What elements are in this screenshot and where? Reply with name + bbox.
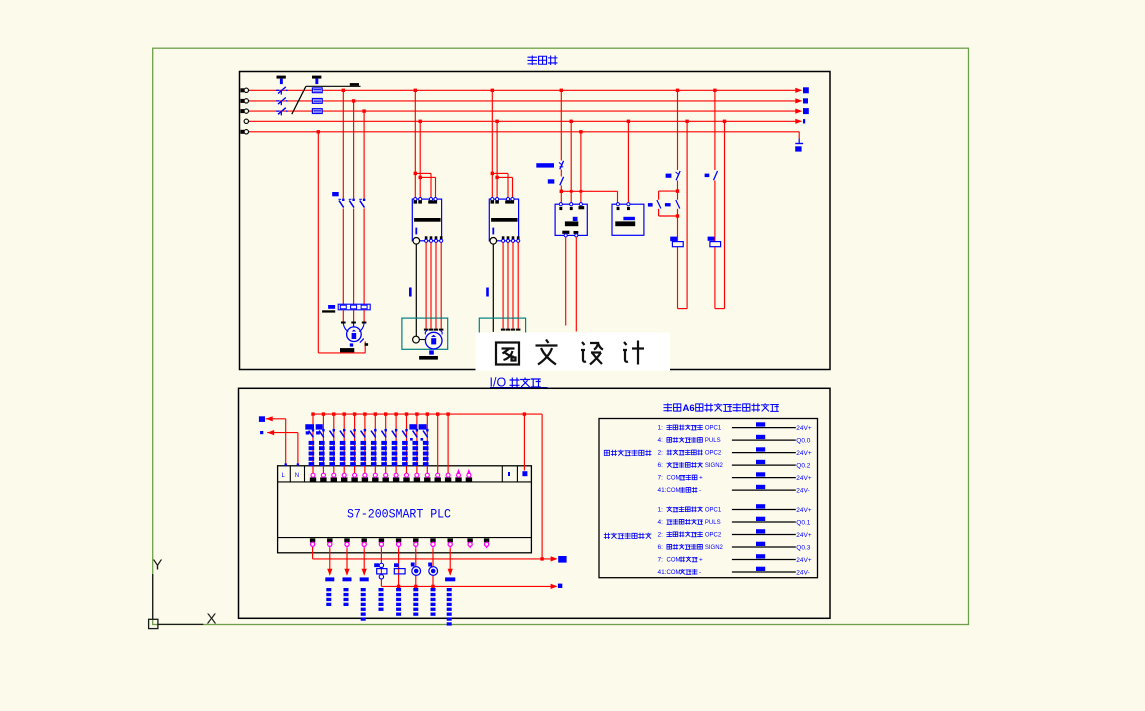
wire U2 jumper N: [497, 177, 512, 199]
wire DC+ drop: [523, 414, 525, 470]
drive U1 PE terminal: [413, 238, 420, 245]
bus N wire: [244, 119, 797, 123]
switch SB2: [705, 171, 718, 180]
breaker QS1 pole 1: [276, 87, 287, 95]
output Q0.0 column: [325, 548, 334, 606]
bus N right arrow: [795, 119, 805, 124]
svg-text:COM: COM: [667, 488, 681, 494]
wire to G2: [561, 191, 617, 204]
node PE tap: [317, 130, 320, 133]
thermal relay FR1 label: [322, 305, 335, 313]
group label 横轴电机驱动器: [604, 450, 651, 456]
svg-text:4:: 4:: [658, 519, 664, 526]
arrow line1 out: [551, 556, 567, 563]
bus PE drop to ground: [798, 132, 800, 139]
node L1 tap KA1: [676, 89, 679, 92]
svg-text:24V+: 24V+: [796, 450, 812, 457]
svg-text:24V+: 24V+: [796, 557, 812, 564]
wire FR1 to motor M1: [343, 310, 364, 322]
PLC input terminals: [310, 473, 472, 482]
output bus line 2: [381, 585, 550, 587]
svg-text:6:: 6:: [658, 462, 664, 469]
input column I6: [371, 412, 377, 473]
relay coil KA1: [670, 237, 683, 247]
input column I0: [306, 412, 315, 473]
node PE tap G1: [579, 130, 582, 133]
input labels SQ: [305, 424, 426, 429]
arrow supply L: [259, 416, 287, 466]
svg-text:COM: COM: [667, 476, 681, 482]
svg-text:6:: 6:: [658, 544, 664, 551]
svg-text:1:: 1:: [658, 425, 664, 432]
pin row 6: Q0.2: [658, 460, 811, 470]
svg-text:24V+: 24V+: [796, 532, 812, 539]
wire KM1 to FR1: [343, 208, 364, 304]
bus L2 right arrow: [795, 98, 808, 103]
svg-text:COM: COM: [667, 558, 681, 564]
UCS origin square: [149, 619, 158, 628]
switch SA1: [548, 177, 564, 186]
node L1 tap G1: [560, 89, 563, 92]
bus PE wire: [241, 130, 800, 134]
top section frame: [240, 72, 831, 370]
breaker QS1 handle 2: [312, 76, 321, 85]
svg-text:Y: Y: [153, 557, 163, 574]
wire G1 N feeder: [570, 121, 572, 204]
node line1 right: [540, 557, 543, 560]
bus L1 right arrow: [795, 87, 809, 93]
node L1 tap U1: [414, 89, 417, 92]
output relay KA3 column: [374, 548, 387, 611]
input column I1: [316, 412, 325, 473]
power supply G1: [555, 203, 587, 237]
terminal L1: [241, 88, 245, 92]
node L1 tap U2: [491, 89, 494, 92]
svg-text:OPC1: OPC1: [705, 426, 722, 432]
node L1 tap KA2: [713, 89, 716, 92]
parallel contact block: [648, 191, 680, 216]
svg-text:1:: 1:: [658, 507, 664, 514]
I/O table title I/O点位表: [490, 376, 548, 390]
breaker QS1 pole 2: [276, 98, 287, 106]
svg-text:A6: A6: [683, 403, 695, 414]
svg-text:SIGN2: SIGN2: [705, 545, 724, 551]
power supply G2: [612, 203, 644, 236]
svg-text:PULS: PULS: [705, 520, 721, 526]
motor M2 ground: [419, 350, 438, 359]
motor M2: [425, 331, 442, 349]
node N tap G1: [570, 120, 573, 123]
svg-text:OPC2: OPC2: [705, 451, 722, 457]
wire U1 to motor M2: [426, 242, 441, 328]
output Q0.2 column: [360, 548, 369, 620]
pin row 4: Q0.1: [658, 517, 811, 527]
breaker QF2: [536, 161, 563, 170]
node N tap G2: [627, 120, 630, 123]
input column I13: [446, 412, 449, 473]
fuse FU1-3: [312, 109, 322, 114]
wire KA2 L leg: [714, 90, 716, 308]
contactor KM1 contact 2: [349, 199, 355, 208]
input column I12: [436, 412, 439, 473]
motor M1: [343, 324, 364, 342]
title 主电路 (main circuit): [528, 56, 558, 66]
node G1 cross N: [570, 190, 573, 193]
svg-text:N: N: [295, 473, 299, 479]
node N tap U1: [419, 120, 422, 123]
watermark box 图文设计: [476, 333, 671, 371]
node N tap KA1: [685, 120, 688, 123]
terminal PE: [241, 130, 245, 134]
PE switch contact: [360, 339, 368, 346]
svg-text:X: X: [207, 611, 217, 628]
drive U2 output terminals: [502, 236, 520, 242]
output relay KA4 column: [394, 548, 405, 616]
terminal L2: [241, 99, 245, 103]
pinout table frame: [599, 419, 818, 578]
breaker QS1 linkage: [292, 83, 361, 114]
svg-text:OPC2: OPC2: [705, 533, 722, 539]
wire U2 jumper L: [492, 173, 508, 199]
input column I2: [329, 412, 335, 473]
output lamp HL2 column: [428, 548, 437, 616]
relay coil KA2: [708, 237, 721, 247]
motor M1 ground: [340, 343, 354, 352]
wire G2 N feeder: [627, 121, 629, 204]
input column I4: [350, 412, 356, 473]
PLC output terminals: [310, 538, 489, 548]
node U2 jog L: [491, 172, 494, 175]
terminal N: [244, 119, 248, 123]
svg-text:24V+: 24V+: [796, 507, 812, 514]
node G1 out: [560, 190, 563, 193]
svg-text:OPC1: OPC1: [705, 508, 722, 514]
cable label U1: [409, 288, 412, 297]
wire G1 PE feeder: [580, 132, 582, 204]
wire branch A phase drops: [343, 90, 364, 198]
pin row 1: 24V+: [658, 422, 812, 432]
input column I5: [361, 412, 367, 473]
input column I7: [381, 412, 387, 473]
arrow line2 out: [551, 584, 563, 589]
svg-text:24V-: 24V-: [796, 569, 809, 576]
wire U1 PE to motor: [415, 244, 417, 336]
wire G1 L feeder: [560, 90, 562, 204]
PLC body S7-200SMART: [278, 466, 532, 553]
svg-text:41:: 41:: [658, 487, 667, 494]
bus L3 wire: [241, 109, 798, 113]
node DC+: [523, 412, 526, 415]
svg-text:Q0.1: Q0.1: [796, 519, 810, 526]
PE return loop wire: [318, 132, 365, 353]
output lamp HL1 column: [411, 548, 421, 616]
terminal L3: [241, 109, 245, 113]
node KA1 par bottom: [676, 214, 679, 217]
pin row 6: Q0.3: [658, 542, 811, 552]
output Q0.1 column: [343, 548, 352, 606]
UCS axis vertical: [152, 574, 154, 619]
svg-text:COM: COM: [667, 570, 681, 576]
wire G1 outputs: [566, 237, 577, 332]
output Q1.0 column: [445, 548, 455, 625]
svg-text:+: +: [699, 557, 703, 564]
node N tap KA2: [723, 120, 726, 123]
wire U2 feeders: [492, 90, 497, 199]
svg-text:+: +: [699, 475, 703, 482]
svg-text:L: L: [282, 473, 286, 479]
wire U1 feeders: [415, 90, 420, 199]
motor M1 terminals: [341, 322, 366, 324]
pin row 7: 24V+: [658, 472, 812, 482]
motor M3 terminals: [501, 329, 521, 331]
node N tap U2: [495, 120, 498, 123]
input column I3: [340, 412, 346, 473]
svg-text:Q0.3: Q0.3: [796, 544, 810, 551]
node L2 tap branch A: [352, 99, 355, 102]
input supply bus: [313, 413, 542, 415]
motor M2 PE circle: [413, 336, 426, 343]
thermal relay FR1: [338, 304, 370, 310]
motor M2 terminals: [424, 329, 444, 331]
svg-text:24V+: 24V+: [796, 425, 812, 432]
svg-text:-: -: [699, 487, 701, 494]
group label 纵轴电机驱动器: [604, 533, 652, 539]
table title 松下A6伺服驱动器接线引脚: [664, 403, 779, 414]
wire U2 to motor M3: [503, 242, 518, 328]
node U1 jog N: [419, 176, 422, 179]
pin row 4: Q0.0: [658, 435, 811, 445]
drive U1 output terminals: [425, 236, 443, 242]
servo drive U1: [412, 198, 441, 241]
motor M3 enclosure: [479, 318, 525, 349]
bus L3 right arrow: [795, 108, 809, 114]
wire KA1 L leg: [677, 90, 679, 308]
input column I8: [392, 412, 398, 473]
contactor KM1 label: [332, 192, 339, 196]
UCS axis horizontal: [158, 623, 203, 625]
svg-text:41:: 41:: [658, 569, 667, 576]
wire U1 jumper N: [420, 177, 435, 199]
output bus line 1: [313, 547, 551, 559]
drive U2 PE terminal: [490, 238, 497, 245]
breaker QS1 pole 3: [276, 108, 287, 116]
wire U2 PE to motor: [492, 244, 494, 332]
fuse FU1-2: [312, 99, 322, 104]
breaker QS1 handle 1: [277, 76, 286, 85]
pin row 41: 24V-: [658, 567, 810, 577]
node U2 jog N: [495, 176, 498, 179]
input column I9: [402, 412, 408, 473]
wire KA1 N leg: [678, 121, 688, 308]
pin row 1: 24V+: [658, 504, 812, 514]
input column I11: [421, 412, 430, 473]
node U1 jog L: [414, 172, 417, 175]
pin row 2: 24V+: [658, 447, 812, 457]
bus L1 wire: [241, 88, 798, 92]
motor M2 enclosure: [402, 318, 448, 349]
wire KA2 N leg: [715, 121, 725, 308]
svg-text:2:: 2:: [658, 450, 664, 457]
cable label U2: [486, 288, 489, 297]
svg-text:PULS: PULS: [705, 438, 721, 444]
svg-text:7:: 7:: [658, 475, 664, 482]
svg-text:24V-: 24V-: [796, 487, 809, 494]
svg-text:Q0.2: Q0.2: [796, 462, 810, 469]
node G1 cross PE: [580, 190, 583, 193]
servo drive U2: [489, 198, 518, 241]
ground symbol PE: [795, 139, 803, 152]
svg-text:-: -: [699, 569, 701, 576]
contactor KM1 contact 1: [338, 199, 344, 208]
bottom section frame: [239, 388, 831, 618]
svg-text:S7-200SMART PLC: S7-200SMART PLC: [347, 506, 451, 521]
wire U1 jumper L: [415, 173, 431, 199]
svg-text:Q0.0: Q0.0: [796, 437, 810, 444]
svg-text:7:: 7:: [658, 557, 664, 564]
pin row 41: 24V-: [658, 485, 810, 495]
pin row 2: 24V+: [658, 529, 812, 539]
fuse FU1-1: [312, 88, 322, 93]
node KA1 par top: [676, 189, 679, 192]
svg-text:SIGN2: SIGN2: [705, 463, 724, 469]
input column I10: [410, 412, 419, 473]
bus L2 wire: [241, 99, 798, 103]
node L3 tap branch A: [362, 109, 365, 112]
svg-text:4:: 4:: [658, 437, 664, 444]
spare input stubs: [457, 469, 471, 474]
wire right riser: [541, 414, 543, 559]
node L1 tap branch A: [342, 89, 345, 92]
arrow supply N: [260, 430, 299, 466]
drawing sheet border (green): [153, 48, 969, 624]
switch SB1: [666, 171, 681, 180]
svg-text:24V+: 24V+: [796, 475, 812, 482]
contactor KM1 contact 3: [359, 199, 365, 208]
svg-text:2:: 2:: [658, 532, 664, 539]
pin row 7: 24V+: [658, 554, 812, 564]
